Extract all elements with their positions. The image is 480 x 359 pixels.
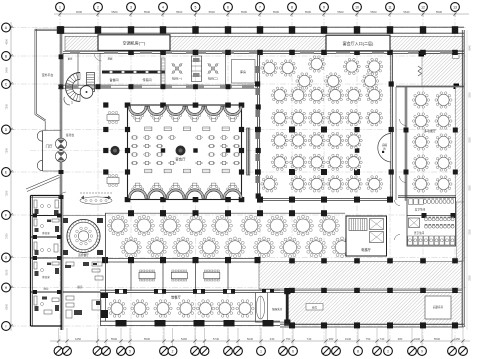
svg-text:银器洗涤: 银器洗涤	[272, 307, 283, 311]
svg-text:休息室: 休息室	[42, 231, 50, 235]
svg-text:3300: 3300	[469, 137, 472, 143]
svg-text:4500: 4500	[76, 10, 83, 14]
svg-text:演唱: 演唱	[382, 143, 388, 147]
svg-text:8: 8	[291, 6, 293, 10]
svg-text:5400: 5400	[5, 67, 9, 73]
svg-text:5460: 5460	[181, 337, 188, 341]
svg-text:4450: 4450	[75, 337, 82, 341]
svg-text:2: 2	[172, 349, 174, 353]
svg-text:2: 2	[97, 6, 99, 10]
svg-text:5500: 5500	[305, 10, 312, 14]
svg-text:12: 12	[421, 6, 425, 10]
svg-text:9: 9	[323, 6, 325, 10]
svg-text:5500: 5500	[209, 10, 216, 14]
svg-text:7200: 7200	[5, 147, 9, 153]
svg-text:5: 5	[129, 349, 131, 353]
svg-text:5640: 5640	[469, 45, 472, 51]
svg-text:电梯厅: 电梯厅	[361, 247, 371, 252]
svg-text:票据: 票据	[108, 57, 113, 61]
svg-text:男卫生间: 男卫生间	[414, 231, 425, 235]
svg-text:备餐间: 备餐间	[109, 77, 118, 82]
svg-text:室外平台: 室外平台	[42, 72, 54, 77]
svg-text:5500: 5500	[241, 10, 248, 14]
svg-text:3300: 3300	[469, 185, 472, 191]
svg-text:传菜间: 传菜间	[142, 77, 151, 82]
svg-text:F: F	[5, 213, 7, 217]
svg-text:380: 380	[398, 337, 403, 341]
svg-text:5500: 5500	[111, 10, 118, 14]
svg-text:5500: 5500	[111, 337, 118, 341]
svg-text:台: 台	[383, 147, 386, 151]
svg-text:宴会厅: 宴会厅	[175, 157, 186, 162]
svg-text:库房: 库房	[312, 306, 318, 310]
svg-text:I: I	[6, 324, 7, 328]
svg-text:5500: 5500	[273, 10, 280, 14]
svg-text:5500: 5500	[176, 10, 183, 14]
svg-text:6300: 6300	[5, 303, 9, 309]
svg-text:办公: 办公	[43, 287, 49, 291]
svg-text:6: 6	[227, 6, 229, 10]
svg-text:库房: 库房	[240, 69, 246, 74]
svg-text:8: 8	[357, 349, 359, 353]
svg-text:11: 11	[388, 6, 392, 10]
svg-text:B: B	[5, 54, 7, 58]
svg-text:厨房: 厨房	[77, 285, 83, 289]
svg-text:6: 6	[292, 349, 294, 353]
svg-text:5740: 5740	[213, 337, 220, 341]
svg-text:E: E	[5, 170, 7, 174]
svg-text:5500: 5500	[370, 10, 377, 14]
svg-text:5500: 5500	[144, 10, 151, 14]
svg-text:更衣: 更衣	[68, 57, 73, 61]
svg-text:后勤库房: 后勤库房	[433, 305, 444, 309]
svg-text:13: 13	[453, 6, 457, 10]
svg-text:1: 1	[71, 101, 73, 105]
svg-text:5500: 5500	[144, 337, 151, 341]
svg-text:750: 750	[286, 337, 291, 341]
svg-text:宴会厅入口(二层): 宴会厅入口(二层)	[343, 40, 374, 46]
svg-text:2: 2	[387, 349, 389, 353]
svg-text:4500: 4500	[5, 38, 9, 44]
svg-text:10: 10	[355, 6, 359, 10]
svg-text:5: 5	[195, 6, 197, 10]
svg-text:女卫生间: 女卫生间	[415, 207, 426, 211]
svg-text:430: 430	[270, 337, 275, 341]
svg-text:散餐厅: 散餐厅	[171, 295, 181, 300]
svg-text:休息室: 休息室	[42, 275, 50, 279]
svg-text:740: 740	[307, 337, 312, 341]
svg-text:包间(一): 包间(一)	[172, 77, 182, 81]
svg-text:380: 380	[329, 337, 334, 341]
svg-text:空调机房(一): 空调机房(一)	[123, 40, 146, 46]
svg-text:1: 1	[59, 6, 61, 10]
svg-text:1: 1	[260, 349, 262, 353]
svg-text:5500: 5500	[436, 10, 443, 14]
svg-text:3: 3	[130, 6, 132, 10]
svg-text:3300: 3300	[469, 92, 472, 98]
svg-text:贵宾餐厅: 贵宾餐厅	[78, 253, 89, 257]
svg-text:4: 4	[162, 6, 164, 10]
svg-text:3300: 3300	[469, 275, 472, 281]
svg-text:1940: 1940	[345, 337, 352, 341]
svg-text:5100: 5100	[5, 269, 9, 275]
svg-text:7: 7	[259, 6, 261, 10]
svg-text:9: 9	[421, 349, 423, 353]
svg-text:5500: 5500	[434, 337, 441, 341]
svg-text:5640: 5640	[403, 10, 410, 14]
svg-text:5040: 5040	[247, 337, 254, 341]
svg-text:5500: 5500	[337, 10, 344, 14]
svg-text:7200: 7200	[5, 190, 9, 196]
svg-text:1940: 1940	[414, 337, 421, 341]
svg-text:750: 750	[366, 337, 371, 341]
svg-text:7200: 7200	[5, 103, 9, 109]
svg-text:包间(二): 包间(二)	[208, 77, 218, 81]
svg-text:7200: 7200	[5, 233, 9, 239]
svg-text:接待台: 接待台	[66, 133, 75, 137]
svg-text:多功能厅: 多功能厅	[424, 128, 436, 133]
svg-text:3300: 3300	[469, 229, 472, 235]
svg-text:1450: 1450	[454, 337, 461, 341]
svg-text:740: 740	[380, 337, 385, 341]
svg-text:门厅: 门厅	[46, 144, 53, 149]
